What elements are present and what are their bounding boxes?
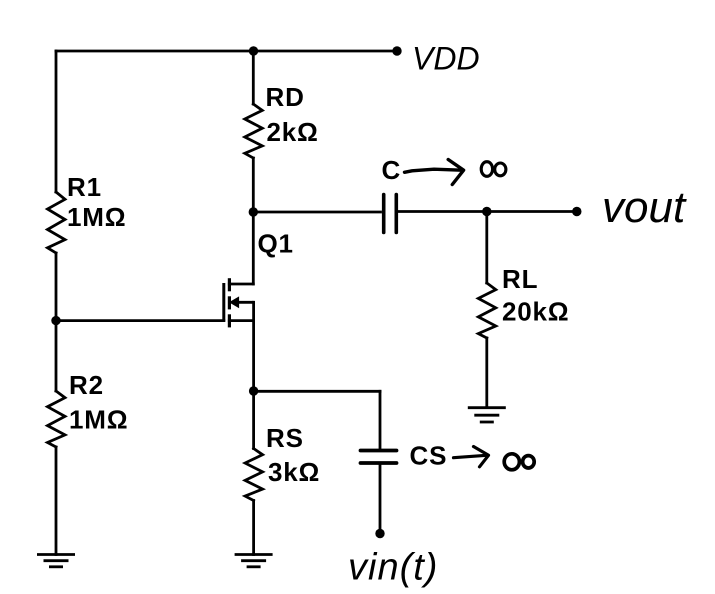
svg-text:2kΩ: 2kΩ — [267, 117, 319, 147]
node junction dot gate (left rail) — [51, 316, 60, 325]
resistor RD — [245, 104, 262, 158]
wire RS top lead — [252, 391, 255, 449]
node junction dot vout/RL — [482, 207, 491, 216]
svg-text:3kΩ: 3kΩ — [268, 457, 320, 487]
terminal dot VDD — [392, 46, 401, 55]
wire RL bottom lead — [485, 338, 488, 408]
Q1 channel dash (bottom) — [228, 314, 231, 327]
svg-text:CS: CS — [410, 441, 448, 471]
svg-text:20kΩ: 20kΩ — [502, 297, 569, 327]
wire RL top lead — [485, 212, 488, 284]
svg-text:VDD: VDD — [412, 41, 480, 77]
Q1 gate bar — [222, 283, 225, 322]
wire left vertical upper (VDD rail to R1) — [55, 51, 58, 192]
wire CS top lead — [379, 391, 382, 448]
ground (RS) — [235, 555, 273, 567]
svg-text:RD: RD — [266, 82, 305, 112]
wire gate from left node to Q1 — [56, 319, 224, 322]
svg-text:vin(t): vin(t) — [348, 547, 438, 589]
node junction dot drain — [249, 207, 258, 216]
wire left vertical middle (R1 to R2 through gate node) — [55, 253, 58, 391]
node junction dot source — [249, 386, 258, 395]
transistor Q1 body — [224, 278, 254, 327]
wire VDD top rail — [56, 50, 397, 53]
wire CS bottom lead to vin terminal — [379, 465, 382, 534]
svg-text:vout: vout — [602, 183, 687, 232]
capacitor CS — [361, 451, 397, 464]
resistor RS — [245, 449, 263, 501]
svg-text:R1: R1 — [67, 172, 102, 202]
annotation infinity for CS — [504, 454, 534, 470]
annotation arrowhead for CS — [474, 447, 489, 467]
wire RD top lead — [252, 51, 255, 104]
wire RD bottom lead to drain node — [252, 158, 255, 212]
svg-text:R2: R2 — [69, 370, 104, 400]
wire RS bottom lead — [252, 501, 255, 555]
svg-text:Q1: Q1 — [258, 229, 294, 259]
resistor RL — [478, 283, 496, 338]
capacitor C — [384, 195, 397, 233]
Q1 channel dash (middle) — [228, 296, 231, 309]
annotation infinity for C — [481, 162, 506, 177]
Q1 body arrowhead — [230, 297, 239, 307]
wire source node to CS branch — [254, 390, 380, 393]
annotation arrow for CS — [454, 455, 487, 457]
Q1 body lead — [237, 301, 254, 304]
wire left vertical lower (R2 to ground) — [55, 447, 58, 555]
annotation arrow for C — [405, 169, 462, 172]
ground (RL) — [468, 408, 506, 422]
svg-text:1MΩ: 1MΩ — [69, 405, 128, 435]
resistor R1 — [48, 192, 66, 253]
wire drain node to capacitor C — [253, 211, 380, 214]
ground (left, R2) — [37, 555, 75, 567]
node junction dot on VDD rail at RD — [249, 46, 258, 55]
svg-text:RL: RL — [502, 264, 538, 294]
wire Q1 drain horizontal — [229, 283, 253, 286]
svg-text:RS: RS — [266, 423, 304, 453]
wire Q1 source horizontal — [229, 319, 253, 322]
Q1 channel dash (top) — [228, 278, 231, 291]
resistor R2 — [48, 391, 66, 447]
svg-text:1MΩ: 1MΩ — [67, 202, 126, 232]
svg-text:C: C — [382, 155, 402, 185]
terminal dot vout — [572, 207, 581, 216]
wire Q1 source vertical down to source node — [252, 302, 255, 391]
wire capacitor C to vout terminal — [399, 210, 577, 213]
terminal dot vin — [375, 529, 384, 538]
wire drain vertical into Q1 — [252, 212, 255, 284]
annotation arrowhead for C — [448, 160, 463, 185]
